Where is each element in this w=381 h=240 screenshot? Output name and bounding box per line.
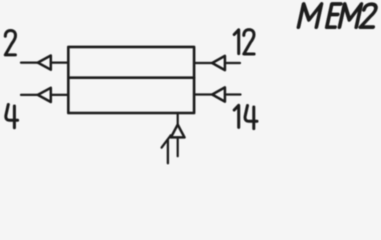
wire pin 12 inner xyxy=(194,62,212,64)
memory block divider xyxy=(68,76,194,79)
arrow shaft xyxy=(167,140,169,163)
wire pin 14 outer xyxy=(225,93,241,95)
wire bottom pin lower xyxy=(177,137,179,156)
wire pin 14 inner xyxy=(194,93,212,95)
label MEM2 xyxy=(298,4,378,27)
wire pin 2 inner xyxy=(51,61,69,63)
input triangle pin 14 xyxy=(212,87,225,101)
arrow barb xyxy=(162,135,171,147)
wire pin 2 outer xyxy=(21,61,38,63)
input triangle pin 4 xyxy=(38,88,51,102)
pin number 2 xyxy=(5,31,15,55)
wire pin 4 outer xyxy=(21,94,38,96)
input triangle pin 2 xyxy=(38,56,51,70)
input triangle pin 12 xyxy=(212,56,225,70)
input triangle bottom pin xyxy=(171,125,185,138)
memory block U1 body xyxy=(68,47,194,113)
pin number 14 xyxy=(234,105,257,128)
pin number 12 xyxy=(234,30,254,54)
wire pin 4 inner xyxy=(51,94,69,96)
pin number 4 xyxy=(6,105,18,128)
wire bottom pin upper xyxy=(177,113,179,125)
wire pin 12 outer xyxy=(225,62,240,64)
